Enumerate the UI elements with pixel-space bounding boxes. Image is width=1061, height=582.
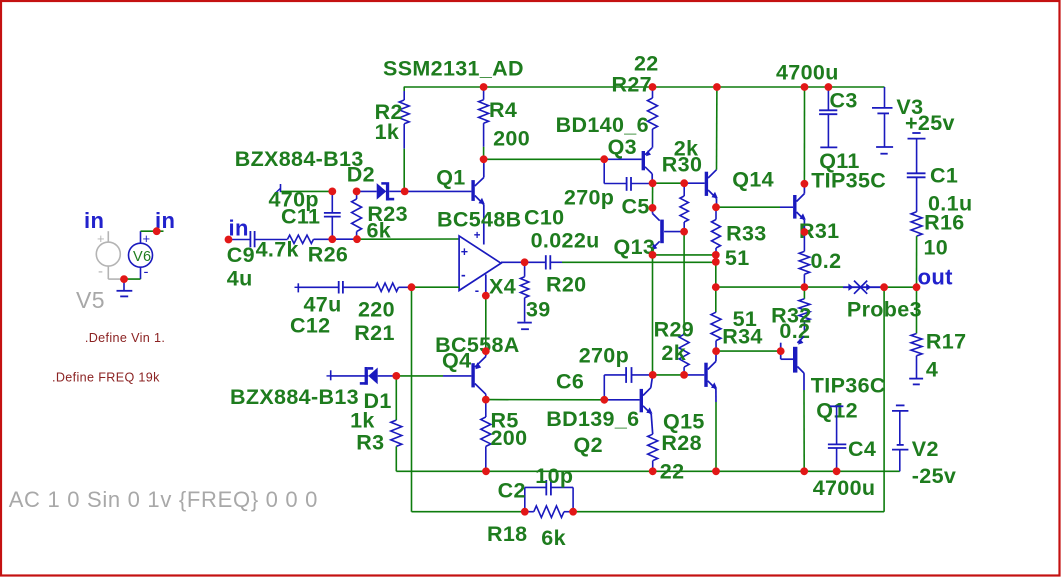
ground R17 xyxy=(909,379,923,385)
wire R34 bottom to Q12 base xyxy=(716,350,781,352)
svg-text:270p: 270p xyxy=(564,186,614,210)
capacitor C1 xyxy=(907,173,926,212)
node R30 top junction xyxy=(680,179,688,187)
wire Q11 base lead xyxy=(780,206,793,208)
svg-text:+: + xyxy=(474,230,481,242)
node C6 junction xyxy=(600,396,608,404)
node R30 bottom junction xyxy=(680,228,688,236)
svg-text:.Define Vin 1.: .Define Vin 1. xyxy=(85,331,165,345)
node Q12 base junction xyxy=(777,347,785,355)
label C6 xyxy=(556,370,584,394)
wire Q4 row to C6 xyxy=(486,399,605,401)
wire R29 to Q15 base xyxy=(684,374,704,376)
node bottom rail junctions xyxy=(482,467,840,475)
label C11 xyxy=(281,205,320,229)
svg-text:Q2: Q2 xyxy=(574,433,603,457)
wire minus input xyxy=(412,286,460,288)
svg-text:V5: V5 xyxy=(76,287,105,313)
label 2k R30 xyxy=(674,137,699,161)
resistor R31 xyxy=(799,232,809,287)
svg-text:Probe3: Probe3 xyxy=(847,298,922,322)
svg-text:200: 200 xyxy=(491,426,528,450)
label .Define Vin 1. xyxy=(85,331,165,345)
wire in to C9 xyxy=(229,239,251,241)
svg-text:R33: R33 xyxy=(726,222,767,246)
wire opamp supply to Q4 xyxy=(485,296,487,352)
svg-text:R20: R20 xyxy=(546,273,587,297)
transistor Q11 xyxy=(793,184,806,232)
svg-text:R3: R3 xyxy=(356,431,384,455)
label Q15 xyxy=(663,410,705,434)
node opamp out junction xyxy=(521,258,529,266)
label 200 R5 xyxy=(491,426,528,450)
label in V5 xyxy=(84,208,104,233)
label R2 xyxy=(375,100,403,124)
svg-text:0.2: 0.2 xyxy=(779,319,810,343)
label C10 xyxy=(524,206,565,230)
diode D2 zener xyxy=(377,182,395,200)
svg-text:C11: C11 xyxy=(281,205,320,229)
svg-text:10: 10 xyxy=(924,236,949,260)
label Q12 xyxy=(816,399,858,423)
resistor R18 xyxy=(525,506,573,518)
node Q13 emitter junction xyxy=(649,251,657,259)
svg-text:2k: 2k xyxy=(661,341,686,365)
label Q14 xyxy=(732,168,774,192)
node R29 bottom junction xyxy=(680,371,688,379)
label out xyxy=(918,265,954,290)
resistor R33 xyxy=(712,207,721,255)
svg-text:C6: C6 xyxy=(556,370,584,394)
wire Q13 node down xyxy=(652,255,654,375)
label R5 xyxy=(491,409,519,433)
label in input xyxy=(229,216,249,241)
resistor R27 xyxy=(648,87,658,148)
resistor R5 xyxy=(481,400,491,472)
label C1 xyxy=(930,164,958,188)
node R34 bottom junction xyxy=(712,347,720,355)
label 270p C5 xyxy=(564,186,614,210)
label 22 R28 xyxy=(660,460,685,484)
svg-text:R28: R28 xyxy=(661,431,702,455)
wire V6 minus to ground xyxy=(124,278,141,280)
svg-text:-: - xyxy=(144,264,149,281)
wire terminal to C11 top xyxy=(281,190,332,192)
label in V6 xyxy=(155,208,175,233)
label R3 xyxy=(356,431,384,455)
label R33 xyxy=(726,222,767,246)
svg-text:1k: 1k xyxy=(350,409,375,433)
wire feedback down xyxy=(411,287,413,512)
svg-text:Q4: Q4 xyxy=(442,349,471,373)
node Q11 emitter junction xyxy=(801,228,809,236)
label TIP36C xyxy=(811,374,886,398)
svg-text:4u: 4u xyxy=(227,266,253,290)
svg-text:BD139_6: BD139_6 xyxy=(546,407,639,431)
wire R26 to node xyxy=(314,238,333,240)
svg-text:+: + xyxy=(143,231,151,246)
label 220 xyxy=(358,297,395,321)
svg-text:C4: C4 xyxy=(848,437,876,461)
svg-text:R26: R26 xyxy=(308,243,349,267)
label R4 xyxy=(489,98,517,122)
wire rail to Q11 collector xyxy=(803,87,805,184)
node Q11 collector junction xyxy=(801,180,809,188)
node D1 R3 junction xyxy=(392,372,400,380)
pin terminal C12 xyxy=(295,283,299,292)
svg-text:39: 39 xyxy=(526,298,551,322)
capacitor C5 xyxy=(604,159,652,191)
label 39 xyxy=(526,298,551,322)
wire R4 to Q3 base xyxy=(484,158,605,160)
svg-text:200: 200 xyxy=(493,127,530,151)
label C12 xyxy=(290,313,331,337)
label R27 xyxy=(612,73,653,97)
label 10p xyxy=(535,464,573,488)
wire Q14 emitter to Q11 base xyxy=(716,206,780,208)
node Q13 collector junction xyxy=(649,204,657,212)
node out row left junction xyxy=(712,283,720,291)
label BZX884-B13 D1 xyxy=(230,385,359,409)
label Probe3 xyxy=(847,298,922,322)
wire out loop bottom xyxy=(573,511,884,513)
wire C5 node down xyxy=(652,183,654,208)
label R34 xyxy=(722,325,763,349)
label Q3 xyxy=(608,135,637,159)
label R18 xyxy=(487,522,528,546)
node top rail junctions xyxy=(480,83,833,91)
wire C11 R23 bottom xyxy=(332,238,357,240)
label Q11 xyxy=(819,149,860,173)
label 4700u C4 xyxy=(813,476,876,500)
wire Q13 emitter to R33 xyxy=(653,254,716,256)
label Q4 xyxy=(442,349,471,373)
svg-text:10p: 10p xyxy=(535,464,573,488)
wire out row xyxy=(716,286,843,288)
label X4 xyxy=(489,274,516,298)
transistor Q15 xyxy=(704,351,717,471)
label R26 xyxy=(308,243,349,267)
label +25v xyxy=(905,111,955,135)
label V2 xyxy=(912,437,939,461)
svg-text:V2: V2 xyxy=(912,437,939,461)
svg-text:+25v: +25v xyxy=(905,111,955,135)
capacitor C3 xyxy=(819,87,837,147)
label R31 xyxy=(799,219,840,243)
label SSM2131_AD xyxy=(383,57,524,81)
svg-text:22: 22 xyxy=(660,460,685,484)
resistor R4 xyxy=(479,87,489,159)
wire bottom -rail xyxy=(396,470,900,472)
svg-text:220: 220 xyxy=(358,297,395,321)
svg-text:6k: 6k xyxy=(367,219,392,243)
resistor R26 xyxy=(288,235,314,243)
svg-text:R21: R21 xyxy=(354,321,395,345)
svg-text:C1: C1 xyxy=(930,164,958,188)
node C11 top xyxy=(328,188,336,196)
wire top +rail xyxy=(404,86,885,88)
svg-text:C12: C12 xyxy=(290,313,331,337)
svg-text:-25v: -25v xyxy=(912,464,956,488)
capacitor C10 xyxy=(525,255,562,269)
wire R33 node gap xyxy=(715,255,717,262)
svg-text:R30: R30 xyxy=(662,153,703,177)
svg-text:4.7k: 4.7k xyxy=(256,238,299,262)
svg-text:4700u: 4700u xyxy=(813,476,876,500)
resistor R20 xyxy=(520,262,528,322)
transistor Q12 xyxy=(781,336,805,471)
label 270p C6 xyxy=(579,344,629,368)
label V3 xyxy=(896,95,923,119)
svg-text:4700u: 4700u xyxy=(776,61,839,85)
svg-text:TIP36C: TIP36C xyxy=(811,374,886,398)
label 0.2 R32 xyxy=(779,319,810,343)
label AC 1 0 Sin 0 1v {FREQ} 0 0 0 xyxy=(9,487,318,512)
svg-text:Q14: Q14 xyxy=(732,168,774,192)
wire R21 to junction xyxy=(399,286,412,288)
label R30 xyxy=(662,153,703,177)
node feedback junction xyxy=(408,283,416,291)
transistor Q13 xyxy=(652,208,685,255)
label R17 xyxy=(926,330,967,354)
label C4 xyxy=(848,437,876,461)
label Q1 xyxy=(436,166,465,190)
label 4.7k xyxy=(256,238,299,262)
resistor R32 xyxy=(799,287,810,330)
node R18 right junction xyxy=(569,508,577,516)
node R4 bottom junction xyxy=(480,155,488,163)
label Q13 xyxy=(614,235,656,259)
label 10 xyxy=(924,236,949,260)
label R28 xyxy=(661,431,702,455)
transistor Q14 xyxy=(705,87,718,207)
battery V3 xyxy=(872,87,893,154)
svg-text:AC 1 0 Sin 0 1v {FREQ} 0 0 0: AC 1 0 Sin 0 1v {FREQ} 0 0 0 xyxy=(9,487,318,512)
label 4 R17 xyxy=(926,358,938,382)
label 0.1u xyxy=(928,192,972,216)
svg-text:BZX884-B13: BZX884-B13 xyxy=(235,147,364,171)
svg-text:+: + xyxy=(97,231,105,246)
label 51 R33 xyxy=(725,246,750,270)
svg-text:R34: R34 xyxy=(722,325,763,349)
svg-text:0.2: 0.2 xyxy=(811,249,842,273)
label BZX884-B13 D2 xyxy=(235,147,364,171)
node D2 R2 Q1 junction xyxy=(401,188,409,196)
svg-text:-: - xyxy=(98,263,103,280)
label R20 xyxy=(546,273,587,297)
svg-text:0.022u: 0.022u xyxy=(531,229,600,253)
node out loop junction xyxy=(880,283,888,291)
wire opamp out xyxy=(501,261,525,263)
label 470p xyxy=(269,188,319,212)
svg-text:in: in xyxy=(229,216,249,241)
node in V6 junction xyxy=(153,227,161,235)
wire wireB to out row xyxy=(715,262,717,287)
svg-text:6k: 6k xyxy=(541,526,566,550)
ground V6 xyxy=(117,279,133,296)
svg-text:R16: R16 xyxy=(924,211,965,235)
node Q4 collector junction xyxy=(482,396,490,404)
wire V6 plus to in node xyxy=(141,230,164,232)
wire C10 to R33 node xyxy=(562,261,716,263)
svg-text:in: in xyxy=(84,208,104,233)
node wireB end xyxy=(712,258,720,266)
node in input xyxy=(225,236,233,244)
svg-text:C5: C5 xyxy=(622,195,650,219)
svg-text:Q1: Q1 xyxy=(436,166,465,190)
label BC548B xyxy=(437,208,522,232)
label R16 xyxy=(924,211,965,235)
node Q4 emitter junction xyxy=(482,347,490,355)
wire out down xyxy=(883,287,885,512)
label D2 xyxy=(347,163,375,187)
svg-text:BD140_6: BD140_6 xyxy=(556,113,649,137)
diode D1 zener xyxy=(331,367,397,385)
node R18 left junction xyxy=(521,508,529,516)
wire R30 node to Q14 base xyxy=(684,182,705,184)
capacitor C2 xyxy=(525,480,573,512)
resistor R30 xyxy=(680,183,688,231)
label 6k R18 xyxy=(541,526,566,550)
label C5 xyxy=(622,195,650,219)
svg-text:Q3: Q3 xyxy=(608,135,637,159)
label R29 xyxy=(654,318,695,342)
node source ground junction xyxy=(120,275,128,283)
capacitor C4 xyxy=(828,406,846,471)
svg-text:C3: C3 xyxy=(830,89,858,113)
svg-text:D2: D2 xyxy=(347,163,375,187)
label 1k R3 xyxy=(350,409,375,433)
svg-text:BZX884-B13: BZX884-B13 xyxy=(230,385,359,409)
label .Define FREQ 19k xyxy=(52,371,160,385)
svg-text:SSM2131_AD: SSM2131_AD xyxy=(383,57,524,81)
node Q3 base junction xyxy=(600,155,608,163)
node R33 bottom junction xyxy=(712,251,720,259)
node R23 bottom junction xyxy=(353,235,361,243)
wire C5 node to R30 node xyxy=(653,182,685,184)
wire feedback bottom xyxy=(412,511,525,513)
label C3 xyxy=(830,89,858,113)
svg-text:TIP35C: TIP35C xyxy=(811,169,886,193)
svg-text:R29: R29 xyxy=(654,318,695,342)
svg-text:C9: C9 xyxy=(227,243,255,267)
label 4700u C3 xyxy=(776,61,839,85)
label C2 xyxy=(498,479,526,503)
pin terminal 470p xyxy=(275,184,281,194)
capacitor C12 xyxy=(298,281,375,294)
transistor Q1 xyxy=(471,159,484,244)
wire D2 to node xyxy=(389,190,405,192)
transistor Q2 xyxy=(640,375,653,434)
wire probe to out xyxy=(884,286,916,288)
capacitor C11 xyxy=(324,191,341,239)
resistor R29 xyxy=(679,232,689,375)
svg-text:R27: R27 xyxy=(612,73,653,97)
resistor R28 xyxy=(648,434,658,471)
op-amp X4 xyxy=(459,230,501,297)
node C5 Q3 junction xyxy=(649,179,657,187)
label V5 xyxy=(76,287,105,313)
label -25v xyxy=(912,464,956,488)
resistor R17 xyxy=(911,287,922,378)
wire C6 to Q2 base xyxy=(604,399,639,401)
svg-text:C2: C2 xyxy=(498,479,526,503)
capacitor C6 xyxy=(604,367,652,400)
label 6k xyxy=(367,219,392,243)
label 0.022u xyxy=(531,229,600,253)
ground R20 xyxy=(517,323,532,330)
label 200 R4 xyxy=(493,127,530,151)
label R32 xyxy=(771,304,812,328)
transistor Q3 xyxy=(642,148,653,183)
wire Q2 collector row xyxy=(653,374,684,376)
label R23 xyxy=(367,202,408,226)
label R21 xyxy=(354,321,395,345)
svg-text:BC548B: BC548B xyxy=(437,208,522,232)
svg-text:-: - xyxy=(461,267,466,283)
svg-text:-: - xyxy=(475,282,480,297)
label Q2 xyxy=(574,433,603,457)
wire to opamp plus input xyxy=(357,238,459,240)
node Q14 emitter junction xyxy=(712,203,720,211)
wire D1 node to Q4 base xyxy=(396,375,471,377)
node R23 top xyxy=(353,188,361,196)
svg-text:R17: R17 xyxy=(926,330,967,354)
label D1 xyxy=(364,389,392,413)
svg-text:C10: C10 xyxy=(524,206,565,230)
label 1k R2 xyxy=(375,120,400,144)
svg-text:1k: 1k xyxy=(375,120,400,144)
svg-text:Q15: Q15 xyxy=(663,410,705,434)
capacitor C9 xyxy=(250,231,287,247)
node out junction xyxy=(913,283,921,291)
probe Probe3 xyxy=(843,281,884,294)
svg-text:51: 51 xyxy=(725,246,750,270)
resistor R2 xyxy=(399,87,409,191)
svg-text:R4: R4 xyxy=(489,98,517,122)
node R31 bottom junction xyxy=(801,283,809,291)
svg-text:R18: R18 xyxy=(487,522,528,546)
svg-text:out: out xyxy=(918,265,954,290)
resistor R3 xyxy=(391,376,402,471)
label 4u xyxy=(227,266,253,290)
label 0.2 R31 xyxy=(811,249,842,273)
label 47u xyxy=(304,293,342,317)
source V5 xyxy=(96,231,124,280)
svg-text:4: 4 xyxy=(926,358,938,382)
node opamp minus supply xyxy=(482,292,490,300)
node R26 C11 junction xyxy=(328,235,336,243)
battery V2 xyxy=(892,405,908,471)
wire R23 to D2 xyxy=(357,190,377,192)
label BC558A xyxy=(435,333,520,357)
resistor R34 xyxy=(711,287,721,351)
label BD140_6 xyxy=(556,113,649,137)
resistor R21 xyxy=(375,283,398,291)
resistor R23 xyxy=(352,191,362,239)
wire Q3 base xyxy=(604,158,641,160)
svg-text:+: + xyxy=(461,245,469,259)
label TIP35C xyxy=(811,169,886,193)
transistor Q4 xyxy=(471,351,485,400)
pin terminal D1 xyxy=(327,370,331,380)
svg-text:V6: V6 xyxy=(133,249,151,265)
wire node to Q1 base xyxy=(405,190,472,192)
svg-text:.Define FREQ 19k: .Define FREQ 19k xyxy=(52,371,160,385)
label BD139_6 xyxy=(546,407,639,431)
label 51 R34 xyxy=(733,307,758,331)
label 22 R27 xyxy=(634,52,659,76)
